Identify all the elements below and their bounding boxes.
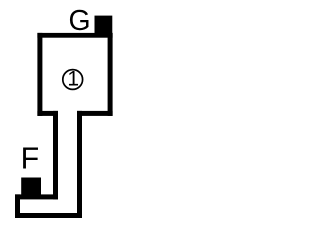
wall: room bottom left segment	[37, 111, 58, 116]
svg-text:G: G	[69, 5, 91, 37]
wall: arm bottom	[15, 213, 82, 218]
svg-text:F: F	[21, 141, 40, 175]
wall: room bottom right segment	[77, 111, 113, 116]
wall: room right	[108, 33, 113, 116]
circled room number 1: circle	[63, 70, 83, 90]
svg-text:1: 1	[67, 68, 79, 91]
marker square F	[21, 178, 41, 198]
wall: arm left end cap	[15, 194, 20, 218]
marker square G	[95, 16, 113, 34]
wall: arm top	[15, 194, 58, 199]
wall: corridor right	[77, 111, 82, 218]
wall: room top	[37, 33, 112, 38]
wall: corridor left	[53, 111, 58, 199]
wall: room left	[37, 33, 42, 116]
